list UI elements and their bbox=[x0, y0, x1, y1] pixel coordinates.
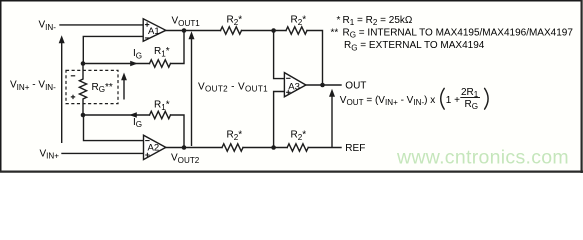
wire node G1 to R1 (IG top) bbox=[83, 63, 150, 65]
wire between bottom R2 resistors bbox=[243, 147, 287, 149]
wire VIN- to A1 noninverting input bbox=[60, 24, 143, 26]
junction node VOUT1 bbox=[182, 28, 187, 33]
svg-text:www.cntronics.com: www.cntronics.com bbox=[396, 146, 569, 168]
wire feedback R2 to OUT node bbox=[307, 31, 323, 86]
resistor R2 bottom-right zigzag bbox=[287, 144, 308, 151]
resistor R2 bottom-left zigzag bbox=[222, 144, 243, 151]
wire R2 bottom-right to REF bbox=[308, 147, 341, 149]
resistor R1 top zigzag bbox=[150, 60, 171, 67]
wire A1 inverting input to node G1 bbox=[83, 36, 143, 63]
wire VIN+ to A2 noninverting input bbox=[62, 152, 144, 154]
IG current arrow bottom bbox=[129, 112, 137, 118]
resistor R1 bottom zigzag bbox=[150, 111, 171, 118]
resistor R2 top-right zigzag (feedback) bbox=[286, 27, 307, 34]
junction node VOUT2 bbox=[182, 145, 187, 150]
op-amp A1 bbox=[143, 19, 166, 41]
VOUT measurement arrow bbox=[329, 89, 335, 148]
formula VOUT bbox=[340, 87, 488, 111]
svg-text:A3: A3 bbox=[288, 81, 300, 92]
svg-text:RG = EXTERNAL TO MAX4194: RG = EXTERNAL TO MAX4194 bbox=[344, 40, 485, 52]
wire R1 bottom to VOUT2 node bbox=[171, 115, 185, 148]
svg-text:1 +: 1 + bbox=[446, 95, 460, 106]
svg-text:REF: REF bbox=[345, 143, 365, 154]
wire A1 output to R2 first bbox=[166, 30, 221, 32]
wire A2 output to R2 bottom-left bbox=[166, 147, 222, 149]
junction node G2 (RG bottom) bbox=[81, 113, 86, 118]
wire R1 top to VOUT1 node bbox=[171, 31, 185, 64]
wire RG node G2 down to A2 inverting input bbox=[84, 115, 144, 141]
junction node bottom between R2s bbox=[271, 145, 276, 150]
svg-text:A2: A2 bbox=[148, 143, 160, 154]
wire node T1 down to A3 inverting input bbox=[274, 31, 285, 79]
page border bbox=[0, 0, 583, 173]
resistor R2 top-left zigzag bbox=[221, 27, 242, 34]
op-amp A3 bbox=[284, 73, 306, 97]
svg-text:A1: A1 bbox=[148, 26, 160, 37]
svg-text:RG = INTERNAL TO MAX4195/MAX41: RG = INTERNAL TO MAX4195/MAX4196/MAX4197 bbox=[343, 27, 574, 39]
resistor RG vertical zigzag bbox=[79, 64, 86, 116]
minus polarity mark in RG box bbox=[71, 75, 75, 77]
wire between top R2 resistors bbox=[242, 30, 287, 32]
wire A3 output to OUT bbox=[306, 84, 341, 86]
svg-text:OUT: OUT bbox=[345, 81, 366, 92]
dashed box around RG bbox=[66, 70, 118, 103]
svg-text:*: * bbox=[337, 15, 341, 26]
IG current arrow top bbox=[130, 61, 138, 67]
junction node G1 (RG top) bbox=[81, 61, 86, 66]
svg-text:**: ** bbox=[331, 27, 339, 38]
wire node G2 to R1 bottom (IG bottom) bbox=[83, 114, 150, 116]
VOUT2-VOUT1 measurement arrow bbox=[189, 31, 195, 146]
wire node B1 up to A3 noninverting input bbox=[274, 92, 285, 148]
junction node OUT bbox=[320, 83, 325, 88]
junction node top between R2s bbox=[271, 28, 276, 33]
op-amp A2 bbox=[144, 135, 166, 159]
differential input arrow line bbox=[59, 35, 65, 143]
arrow beside RG box bbox=[121, 73, 127, 100]
plus polarity mark in RG box bbox=[71, 95, 75, 99]
